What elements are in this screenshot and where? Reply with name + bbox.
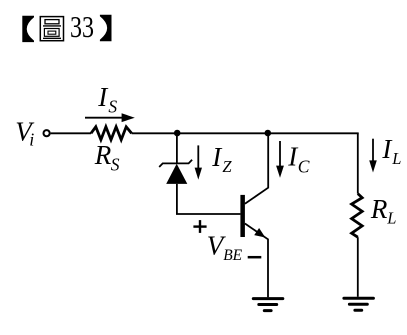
current arrow IC (279, 141, 281, 168)
label plus sign (193, 220, 206, 233)
title glyph 圖 (40, 17, 63, 41)
wire: zener anode down and right to base (177, 184, 241, 214)
wire: resistor RS to node A (132, 132, 178, 134)
wire: resistor RL down to ground (357, 237, 359, 297)
zener diode D1 cathode bar (159, 160, 192, 167)
node A junction dot (174, 130, 181, 137)
wire: terminal to resistor RS (51, 132, 91, 134)
transistor Q1 emitter arrowhead (254, 228, 265, 238)
svg-text:C: C (298, 156, 310, 176)
current arrow IZ (197, 145, 199, 169)
svg-text:i: i (29, 130, 34, 150)
svg-text:Z: Z (222, 157, 232, 176)
ground (emitter) (253, 299, 282, 311)
svg-text:S: S (111, 155, 120, 175)
wire: node A down to zener cathode (176, 133, 178, 163)
zener diode D1 anode triangle (166, 164, 187, 184)
svg-text:33: 33 (70, 9, 94, 44)
svg-text:R: R (370, 194, 388, 224)
svg-text:L: L (386, 209, 396, 228)
resistor RL (352, 194, 363, 238)
wire: rail node B to right corner (268, 132, 359, 134)
svg-text:R: R (94, 140, 112, 170)
title right bracket 】 (100, 15, 112, 41)
svg-text:S: S (108, 97, 117, 117)
current arrow IS (85, 117, 124, 119)
label minus sign (248, 256, 262, 259)
transistor Q1 collector lead (245, 133, 268, 204)
current arrow IL (372, 139, 374, 162)
svg-text:L: L (391, 149, 401, 168)
resistor RS (91, 127, 132, 140)
wire: right corner down to resistor RL (357, 133, 359, 193)
input terminal circle (44, 130, 50, 136)
transistor Q1 emitter lead (245, 224, 268, 298)
svg-text:BE: BE (223, 247, 242, 264)
ground (load) (344, 298, 374, 310)
node B junction dot (collector node) (265, 130, 272, 137)
title left bracket 【 (22, 16, 34, 42)
wire: rail node A to node B (177, 132, 268, 134)
transistor Q1 base bar (240, 195, 245, 237)
